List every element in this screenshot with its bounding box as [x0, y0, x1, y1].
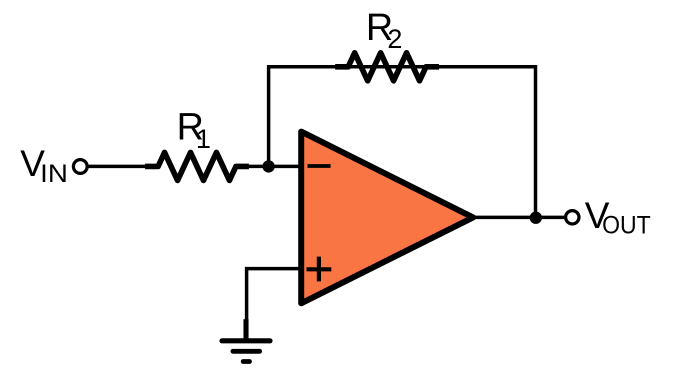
svg-text:OUT: OUT [602, 211, 651, 239]
op-amp noninverting input marker (plus) [307, 257, 332, 282]
op-amp inverting input marker (minus) [308, 164, 331, 168]
svg-text:2: 2 [387, 24, 402, 54]
node A junction (inverting input) [262, 160, 274, 172]
svg-text:1: 1 [196, 124, 211, 154]
wire feedback loop (node A up, across top, down to output node) [269, 67, 536, 218]
node VIN terminal [73, 160, 87, 174]
resistor R1 [145, 152, 249, 180]
wire input (VIN terminal to R1) [88, 165, 150, 169]
node VOUT terminal [566, 211, 579, 224]
wire noninverting input to ground [247, 269, 302, 322]
svg-text:IN: IN [40, 160, 68, 188]
wire R1 to op-amp inverting input [246, 165, 302, 169]
wire output (op-amp apex to VOUT terminal) [471, 216, 564, 220]
resistor R2 [335, 53, 439, 81]
node output junction [530, 212, 542, 224]
op-amp U1 [301, 132, 473, 304]
ground [222, 319, 270, 361]
